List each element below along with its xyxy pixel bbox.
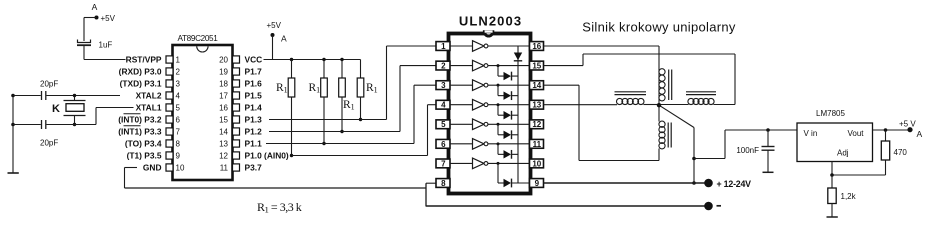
svg-text:ULN2003: ULN2003 [459, 14, 522, 29]
U2 pin 6 box [436, 139, 450, 148]
svg-text:12: 12 [219, 152, 228, 161]
svg-text:P1.0 (AIN0): P1.0 (AIN0) [245, 151, 289, 161]
svg-text:+5V: +5V [267, 21, 282, 30]
svg-text:4: 4 [441, 101, 446, 110]
svg-text:2: 2 [176, 68, 181, 77]
svg-text:(INT1) P3.3: (INT1) P3.3 [118, 127, 162, 137]
svg-text:20pF: 20pF [40, 80, 58, 89]
wire 1uF to RST/VPP pin 1 [84, 59, 126, 61]
U2 pin 2 box [436, 61, 450, 70]
wire GND (MCU pin10) down and right to ULN pin 8 [125, 168, 437, 207]
svg-text:(T1) P3.5: (T1) P3.5 [127, 151, 162, 161]
svg-text:P1.7: P1.7 [245, 67, 263, 77]
svg-text:9: 9 [176, 152, 181, 161]
U1 pin 1 box + label RST/VPP [126, 55, 181, 65]
label R1 value [257, 200, 302, 215]
svg-text:14: 14 [532, 81, 541, 90]
U1 pin 3 box + label (TXD) P3.1 [120, 79, 181, 89]
svg-text:Silnik krokowy unipolarny: Silnik krokowy unipolarny [582, 19, 736, 34]
U2 pin 8 box [436, 179, 450, 188]
svg-text:V in: V in [804, 129, 818, 138]
U1 pin 12 box + label P1.0 (AIN0) [219, 151, 289, 161]
U2 flyback diode channel 4 [497, 103, 519, 119]
U2 pin 4 box [436, 100, 450, 109]
svg-text:RST/VPP: RST/VPP [126, 55, 162, 65]
U1 pin 4 box + label XTAL2 [136, 91, 181, 101]
wire ULN pin15 to winding L2 right end [544, 54, 736, 105]
svg-text:8: 8 [176, 140, 181, 149]
U2 pin 12 box [530, 120, 544, 129]
U2 pin 13 box [530, 100, 544, 109]
svg-text:19: 19 [219, 68, 228, 77]
svg-text:18: 18 [219, 80, 228, 89]
svg-text:17: 17 [219, 92, 228, 101]
U2 driver channel 7 (buffer) [450, 158, 530, 169]
U2 flyback diode channel 7 (to pin 9 line) [497, 162, 530, 187]
capacitor C1 1uF (reset cap) [77, 18, 112, 60]
svg-text:3: 3 [176, 80, 181, 89]
svg-text:11: 11 [533, 140, 542, 149]
U2 driver channel 5 (buffer) [450, 119, 530, 130]
U2 driver channel 4 (buffer) [450, 99, 530, 110]
U1 pin 15 box + label P1.3 [219, 115, 262, 125]
U2 internal common rail [517, 46, 519, 183]
node A (+5V terminal, top-left) [84, 2, 116, 23]
U2 pin 5 box [436, 120, 450, 129]
wire +12-24V rail from ULN pin 9 [544, 182, 709, 184]
svg-text:P1.3: P1.3 [245, 115, 263, 125]
wire XTAL1 connection [96, 108, 134, 125]
U2 pin 16 box [530, 42, 544, 51]
U2 driver channel 3 (buffer) [450, 80, 530, 91]
U1 pin 2 box + label (RXD) P3.0 [119, 67, 181, 77]
svg-text:P3.7: P3.7 [245, 163, 263, 173]
svg-text:1,2k: 1,2k [841, 192, 857, 201]
U2 pin 15 box [530, 61, 544, 70]
svg-text:10: 10 [176, 164, 185, 173]
resistor R3 1,2k [828, 175, 857, 217]
node minus terminal [704, 202, 721, 211]
svg-text:K: K [52, 103, 60, 115]
U2 pin 11 box [530, 139, 544, 148]
U1 pin 14 box + label P1.2 [219, 127, 262, 137]
resistor R1 pull-up #2 [321, 60, 328, 146]
svg-text:16: 16 [532, 42, 541, 51]
svg-text:1: 1 [441, 42, 446, 51]
overline INT1 [124, 125, 141, 127]
resistor R1 pull-up #4 [357, 60, 364, 122]
label R1 #4 [366, 82, 378, 95]
wire ULN pin16 to winding L1 [544, 46, 660, 69]
svg-text:470: 470 [894, 148, 908, 157]
ground (left rail end bar) [8, 172, 19, 174]
U1 pin 10 box + label GND [143, 163, 185, 173]
wire P1.3 to ULN pin 1 [269, 46, 436, 120]
svg-text:R1 = 3,3 k: R1 = 3,3 k [257, 200, 302, 215]
svg-text:(TO) P3.4: (TO) P3.4 [125, 139, 162, 149]
wire VCC rail [264, 58, 361, 61]
capacitor C2 20pF (XTAL2) [13, 80, 120, 101]
svg-text:(INT0) P3.2: (INT0) P3.2 [118, 115, 162, 125]
svg-text:20pF: 20pF [40, 139, 58, 148]
svg-text:100nF: 100nF [736, 146, 759, 155]
U2 driver channel 1 (buffer) [450, 41, 530, 52]
label R1 #3 [343, 99, 355, 112]
IC U1 AT89C2051 [173, 34, 233, 180]
svg-text:VCC: VCC [245, 55, 263, 65]
U2 flyback diode channel 3 [497, 84, 519, 100]
overline INT0 [124, 113, 141, 115]
U1 pin 7 box + label (INT1) P3.3 [118, 127, 180, 137]
svg-text:P1.1: P1.1 [245, 139, 263, 149]
svg-text:+5 V: +5 V [899, 120, 916, 129]
svg-text:AT89C2051: AT89C2051 [178, 34, 219, 43]
svg-text:P1.2: P1.2 [245, 127, 263, 137]
svg-text:A: A [281, 34, 287, 44]
U1 pin 5 box + label XTAL1 [136, 103, 181, 113]
node A (+5V terminal above VCC) [267, 21, 288, 60]
svg-text:5: 5 [441, 120, 446, 129]
inductor L3 motor winding left [615, 92, 660, 105]
U2 flyback diode channel 6 [497, 142, 519, 158]
U2 pin 7 box [436, 159, 450, 168]
inductor L1 motor winding top [659, 69, 672, 106]
U2 flyback diode channel 1 (vertical) [514, 53, 522, 61]
svg-text:(TXD) P3.1: (TXD) P3.1 [120, 79, 162, 89]
svg-text:P1.6: P1.6 [245, 79, 263, 89]
node motor common (junction) [657, 103, 661, 107]
capacitor C4 100nF [736, 130, 774, 172]
svg-text:12: 12 [532, 120, 541, 129]
U2 flyback diode channel 2 [497, 64, 519, 80]
U1 pin 8 box + label (TO) P3.4 [125, 139, 181, 149]
svg-text:5: 5 [176, 104, 181, 113]
wire P1.1 to ULN pin 3 [266, 85, 436, 143]
capacitor C3 20pF (XTAL1) [13, 120, 96, 148]
svg-text:20: 20 [219, 56, 228, 65]
label R1 #2 [309, 82, 321, 95]
wire ULN pin13 to winding L3 left end [544, 104, 618, 106]
svg-text:13: 13 [532, 101, 541, 110]
U1 pin 11 box + label P3.7 [220, 163, 262, 173]
svg-text:3: 3 [441, 81, 446, 90]
node +12-24V terminal [704, 179, 751, 189]
wire minus rail [426, 205, 709, 207]
wire left rail (crystal ground rail) [11, 94, 15, 173]
resistor R2 470 [832, 130, 907, 175]
svg-text:8: 8 [441, 179, 446, 188]
U2 pin 10 box [530, 159, 544, 168]
wire P1.0 to ULN pin 4 [292, 105, 436, 156]
svg-text:16: 16 [219, 104, 228, 113]
svg-text:A: A [92, 2, 98, 12]
wire P1.2 to ULN pin 2 [269, 66, 436, 132]
U2 pin 9 box [530, 179, 544, 188]
svg-text:Vout: Vout [847, 129, 864, 138]
svg-text:Adj: Adj [837, 149, 849, 158]
svg-text:LM7805: LM7805 [816, 109, 845, 118]
U2 pin 14 box [530, 81, 544, 90]
svg-text:GND: GND [143, 163, 162, 173]
U1 pin 13 box + label P1.1 [219, 139, 262, 149]
label R1 #1 [276, 82, 288, 95]
svg-text:1uF: 1uF [99, 41, 113, 50]
svg-text:A: A [917, 129, 923, 139]
U1 pin 20 box + label VCC [219, 55, 262, 65]
svg-text:14: 14 [219, 128, 228, 137]
resistor R1 pull-up #1 [288, 60, 295, 158]
wire Vout to +5V terminal [873, 128, 911, 132]
svg-text:7: 7 [176, 128, 181, 137]
svg-text:P1.5: P1.5 [245, 91, 263, 101]
U2 pin 1 box [436, 42, 450, 51]
inductor L2 motor winding right [659, 92, 716, 105]
crystal K (quartz) [52, 94, 86, 126]
svg-text:13: 13 [219, 140, 228, 149]
wire motor common diagonal to supply [659, 105, 696, 185]
U2 pin 3 box [436, 81, 450, 90]
wire supply to LM7805 V in [694, 128, 797, 158]
U1 pin 6 box + label (INT0) P3.2 [118, 115, 180, 125]
U2 driver channel 6 (buffer) [450, 139, 530, 150]
node +5V output terminal A [899, 120, 923, 140]
svg-text:P1.4: P1.4 [245, 103, 263, 113]
svg-text:6: 6 [176, 116, 181, 125]
svg-text:15: 15 [532, 61, 541, 70]
resistor R1 pull-up #3 [339, 60, 346, 134]
U1 pin 16 box + label P1.4 [219, 103, 262, 113]
svg-text:XTAL1: XTAL1 [136, 103, 162, 113]
inductor L4 motor winding bottom [659, 106, 671, 149]
wire ULN pin14 to winding L4 bottom end [544, 85, 660, 160]
svg-text:(RXD) P3.0: (RXD) P3.0 [119, 67, 162, 77]
svg-text:+ 12-24V: + 12-24V [717, 179, 752, 189]
U1 pin 18 box + label P1.6 [219, 79, 262, 89]
svg-text:1: 1 [176, 56, 181, 65]
wire Adj pin [830, 162, 834, 177]
svg-text:+5V: +5V [101, 14, 116, 23]
U2 flyback diode channel 5 [497, 123, 519, 139]
U2 driver channel 2 (buffer) [450, 60, 530, 71]
svg-text:7: 7 [441, 159, 446, 168]
svg-text:6: 6 [441, 140, 446, 149]
svg-text:15: 15 [219, 116, 228, 125]
svg-text:11: 11 [220, 164, 229, 173]
U1 pin 9 box + label (T1) P3.5 [127, 151, 181, 161]
svg-text:2: 2 [441, 61, 446, 70]
U1 pin 17 box + label P1.5 [219, 91, 262, 101]
svg-text:4: 4 [176, 92, 181, 101]
IC U3 LM7805 regulator [797, 109, 873, 162]
svg-text:XTAL2: XTAL2 [136, 91, 162, 101]
ground (1,2k end bar) [827, 216, 838, 218]
U1 pin 19 box + label P1.7 [219, 67, 262, 77]
svg-text:9: 9 [535, 179, 540, 188]
ground (100nF end bar) [763, 171, 774, 173]
IC U2 ULN2003 [449, 14, 531, 194]
svg-text:10: 10 [532, 159, 541, 168]
